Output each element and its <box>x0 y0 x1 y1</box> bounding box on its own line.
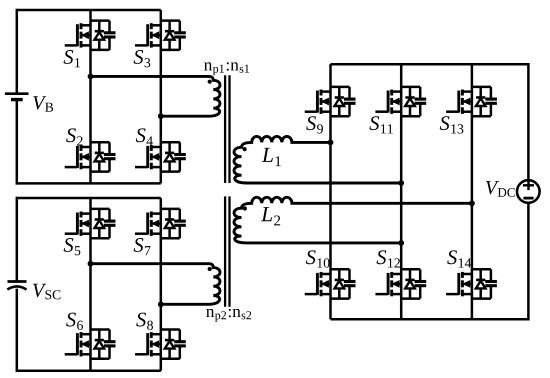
wire leg S11-S12 <box>400 64 403 319</box>
label S1 <box>64 50 80 67</box>
wire leg S5-S6 <box>89 198 92 371</box>
node midpoint S1-S2 <box>88 74 94 80</box>
transistor S1 <box>65 21 116 50</box>
transistor S13 <box>446 87 497 116</box>
wire right rail lower <box>527 203 530 321</box>
wire left rail lower (V_B -) <box>16 100 19 185</box>
label S9 <box>306 116 323 133</box>
node L1 to leg S9-S10 <box>328 140 334 146</box>
label S3 <box>134 50 151 67</box>
transistor S12 <box>375 269 426 298</box>
label S6 <box>66 313 83 330</box>
transistor S6 <box>65 330 116 359</box>
transistor S3 <box>135 21 186 50</box>
label S4 <box>136 128 153 145</box>
wire top rail of V_SC bridge <box>17 197 161 200</box>
label n_p2:n_s2 <box>206 309 251 322</box>
wire leg S9-S10 <box>329 64 332 319</box>
transistor S5 <box>65 209 116 238</box>
polarity dot n_s1 <box>243 147 247 151</box>
transistor S2 <box>65 142 116 171</box>
wire bottom rail of V_B bridge <box>17 182 161 185</box>
label S2 <box>66 128 82 145</box>
transistor S8 <box>135 330 186 359</box>
battery V_B <box>5 94 29 100</box>
wire right rail upper <box>527 63 530 180</box>
node n_s2 to leg S11-S12 <box>398 240 404 246</box>
inductor L2 + winding n_s2 (transformer T2 secondary) with wires to right bridge <box>234 197 472 243</box>
node midpoint S5-S6 <box>88 261 94 267</box>
label n_p1:n_s1 <box>204 62 249 75</box>
transistor S11 <box>375 87 426 116</box>
wire top rail of output bridge <box>331 63 529 66</box>
transistor S4 <box>135 142 186 171</box>
label S10 <box>306 250 330 267</box>
polarity dot n_p2 <box>208 267 212 271</box>
source V_DC <box>517 180 540 203</box>
winding n_p2 (transformer T2 primary) with wires to S5-S6 and S7-S8 midpoints <box>91 264 220 305</box>
label V_DC <box>486 181 515 197</box>
node midpoint S3-S4 <box>158 113 164 119</box>
wire leg S7-S8 <box>160 198 163 371</box>
transistor S7 <box>135 209 186 238</box>
wire bottom rail of V_SC bridge <box>17 369 161 372</box>
wire left rail upper (V_B +) <box>16 9 19 94</box>
polarity dot n_s2 <box>243 206 247 210</box>
wire leg S13-S14 <box>471 64 474 319</box>
label V_SC <box>33 284 60 300</box>
wire bottom rail of output bridge <box>331 318 529 321</box>
node midpoint S7-S8 <box>158 301 164 307</box>
inductor L1 + winding n_s1 (transformer T1 secondary) with wires to right bridge <box>234 136 401 183</box>
label S14 <box>447 250 471 267</box>
transformer T1 core <box>225 75 229 183</box>
wire left rail upper (V_SC +) <box>16 197 19 282</box>
label S8 <box>136 313 153 330</box>
capacitor V_SC (supercap) <box>7 282 26 290</box>
wire top rail of V_B bridge <box>17 9 161 12</box>
wire leg S3-S4 <box>160 10 163 183</box>
label S12 <box>377 250 400 267</box>
label L2 <box>261 207 280 225</box>
winding n_p1 (transformer T1 primary) with wires to S1-S2 and S3-S4 midpoints <box>91 76 220 116</box>
label V_B <box>33 96 53 111</box>
transformer T2 core <box>225 196 229 306</box>
node L2 to leg S13-S14 <box>469 200 475 206</box>
label S11 <box>369 116 392 133</box>
polarity dot n_p1 <box>208 80 212 84</box>
transistor S9 <box>305 87 356 116</box>
label S7 <box>134 238 151 255</box>
wire leg S1-S2 <box>89 10 92 183</box>
transistor S14 <box>446 269 497 298</box>
label S13 <box>440 116 464 133</box>
wire left rail lower (V_SC -) <box>16 289 19 372</box>
transistor S10 <box>305 269 356 298</box>
label L1 <box>262 148 281 166</box>
label S5 <box>64 238 81 255</box>
node n_s1 to leg S11-S12 <box>398 180 404 186</box>
